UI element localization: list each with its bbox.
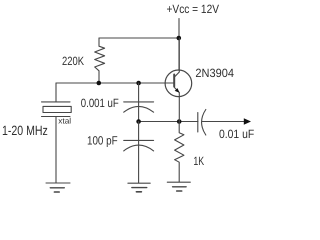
svg-text:220K: 220K [62,54,84,68]
transistor Q1 2N3904 circle [165,70,192,97]
transistor Q1 base bar [173,75,175,87]
node junction emitter-rail/caps dot [136,119,141,124]
wire Vcc vertical rail [178,19,180,71]
capacitor C 0.001uF curved plate [124,106,154,112]
capacitor C 0.01uF straight plate [197,113,199,133]
ground under crystal [46,183,70,192]
crystal XTAL plates [42,102,71,117]
resistor R 1K [175,122,184,183]
svg-text:1-20 MHz: 1-20 MHz [2,123,48,138]
ground under 1K [167,182,190,191]
node junction emitter-rail/1K dot [177,119,182,124]
capacitor C 100pF straight plate [124,139,154,141]
svg-text:+Vcc = 12V: +Vcc = 12V [167,2,220,16]
capacitor C 0.001uF lead [138,83,140,122]
capacitor C 100pF lead [138,122,140,184]
svg-text:100 pF: 100 pF [87,134,118,148]
output arrowhead [244,118,251,124]
ground under 100pF [128,183,150,192]
capacitor C 0.01uF curved plate [202,110,206,136]
svg-text:1K: 1K [193,154,204,168]
svg-text:xtal: xtal [58,117,71,126]
svg-text:2N3904: 2N3904 [195,66,234,80]
capacitor C 0.001uF straight plate [124,101,154,103]
wire crystal bottom lead [55,117,57,184]
node junction base/0.001uF dot [136,81,141,86]
node junction base/220K dot [97,81,102,86]
wire emitter rail [139,121,198,123]
svg-text:0.001 uF: 0.001 uF [81,96,119,110]
transistor Q1 collector diagonal [174,38,179,77]
wire crystal top lead [55,83,57,102]
crystal XTAL body rectangle [43,106,71,112]
wire output with arrow [202,121,250,123]
svg-text:0.01 uF: 0.01 uF [219,127,254,141]
resistor R 220K [95,38,105,83]
transistor Q1 emitter diagonal [174,87,179,121]
wire base rail [56,82,174,84]
node junction Vcc/top-rail dot [177,36,182,41]
transistor Q1 emitter arrowhead [175,88,180,93]
wire top rail to 220K [99,37,179,39]
capacitor C 100pF curved plate [124,145,154,151]
